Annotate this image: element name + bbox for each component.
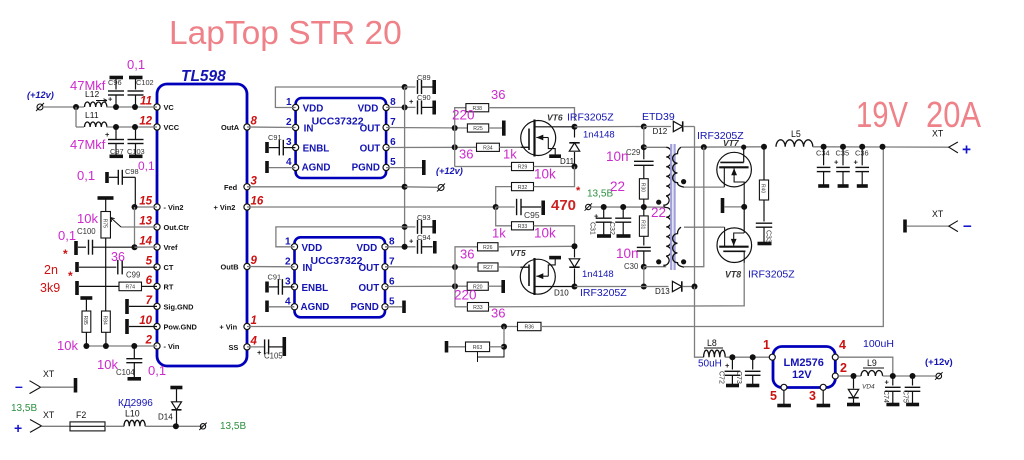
svg-text:C32: C32 [608, 222, 615, 235]
svg-text:3: 3 [286, 137, 292, 148]
capacitor C99 line [75, 262, 79, 272]
svg-text:D12: D12 [653, 127, 668, 136]
svg-text:9: 9 [251, 255, 258, 267]
capacitor C100 [74, 241, 78, 255]
resistor R30 [639, 179, 648, 199]
node R84/-Vin [103, 343, 109, 349]
svg-text:4: 4 [839, 338, 846, 352]
wire L9 to +12v out [883, 375, 936, 377]
resistor R74 line [75, 281, 79, 295]
node output feedback [880, 144, 886, 150]
svg-text:IN: IN [304, 124, 314, 135]
svg-text:VT8: VT8 [725, 270, 741, 280]
svg-text:22: 22 [610, 179, 625, 194]
resistor R84 [102, 311, 111, 332]
svg-text:+: + [725, 361, 730, 370]
resistor R36 [518, 322, 542, 330]
resistor R85 [80, 296, 92, 300]
wire cross-link down [684, 147, 704, 267]
node sources [741, 204, 747, 210]
svg-text:10n: 10n [616, 246, 639, 261]
svg-text:10k: 10k [57, 338, 78, 353]
terminal 13,5B supply [586, 204, 591, 209]
wire secondary top to VT7 drain [684, 186, 724, 188]
wire +Vin line right [541, 147, 883, 327]
node C75 [910, 373, 916, 379]
svg-text:IN: IN [303, 263, 313, 274]
wire UCC1 pin1 VDD loop [275, 87, 404, 108]
wire UCC2 OUT6 [385, 285, 467, 287]
node D10 anode [572, 243, 578, 249]
svg-text:7: 7 [389, 256, 395, 267]
svg-text:C89: C89 [417, 73, 431, 82]
svg-text:R75: R75 [101, 219, 107, 228]
node C97 bottom line [113, 124, 119, 130]
svg-text:VT5: VT5 [510, 248, 526, 258]
TL598 pin 4 SS [244, 344, 250, 350]
svg-text:TL598: TL598 [181, 68, 226, 85]
terminal (+12v) aux [438, 185, 444, 191]
svg-text:L11: L11 [85, 110, 99, 120]
svg-text:36: 36 [491, 87, 505, 102]
svg-text:*: * [68, 269, 73, 283]
svg-text:2: 2 [840, 361, 847, 375]
resistor R32 [512, 183, 534, 191]
capacitor C73 [752, 357, 754, 369]
node C103 bottom line [132, 124, 138, 130]
node C74 [890, 373, 896, 379]
svg-text:1k: 1k [503, 147, 517, 162]
node -Vin2/C98 [132, 204, 138, 210]
svg-text:+: + [409, 97, 414, 106]
wire R32 branch [496, 187, 512, 207]
svg-text:10k: 10k [77, 211, 98, 226]
node OUT6 (2) [452, 283, 458, 289]
svg-text:220: 220 [452, 108, 475, 123]
capacitor C98 [105, 172, 109, 183]
svg-text:+: + [834, 158, 839, 167]
svg-text:PGND: PGND [352, 163, 380, 174]
resistor R34 [477, 143, 500, 151]
arrow L12 polarity [96, 99, 107, 103]
svg-text:R40: R40 [760, 184, 766, 193]
ground AGND stub (top) [265, 161, 269, 173]
node VD4 [851, 373, 857, 379]
TL598 pin 16 + Vin2 [244, 204, 250, 210]
node VT5 drain [572, 284, 578, 290]
svg-text:ENBL: ENBL [303, 144, 330, 155]
svg-text:10k: 10k [534, 226, 556, 241]
svg-text:+: + [962, 142, 971, 159]
svg-text:Sig.GND: Sig.GND [164, 302, 195, 311]
LM2576 pin 2 [832, 373, 838, 379]
diode D14 [170, 386, 182, 390]
wire L10 to node [145, 425, 203, 427]
capacitor C33 [756, 222, 772, 224]
node VT7 gate [741, 145, 746, 150]
wire 13,5B to transformer [591, 206, 664, 208]
transistor VT8 IRF3205Z [717, 228, 752, 263]
svg-text:C35: C35 [836, 149, 850, 158]
svg-text:47Mkf: 47Mkf [70, 78, 106, 93]
resistor R29 [512, 162, 534, 170]
svg-text:19V: 19V [856, 94, 909, 135]
wire pin4 loop [838, 357, 893, 376]
wire UCC2 pin8 [385, 246, 416, 248]
svg-text:XT: XT [932, 129, 944, 139]
wire C98 down to -Vin2 [134, 177, 136, 207]
svg-text:(+12v): (+12v) [925, 357, 953, 368]
svg-text:IRF3205Z: IRF3205Z [748, 269, 795, 281]
node C96 top line [113, 104, 119, 110]
diode D13 [672, 281, 681, 291]
svg-text:10k: 10k [534, 167, 556, 182]
svg-text:VD4: VD4 [862, 384, 875, 391]
TL598 pin 6 RT [154, 283, 160, 289]
svg-text:+: + [409, 237, 414, 246]
inductor L8 [704, 350, 726, 357]
svg-text:OUT: OUT [360, 124, 381, 135]
capacitor C29 [643, 147, 645, 159]
svg-text:UCC37322: UCC37322 [312, 116, 364, 128]
wire drain to primary top [575, 126, 644, 128]
resistor R27 [478, 263, 498, 271]
svg-text:12: 12 [139, 116, 152, 128]
svg-text:C98: C98 [125, 167, 139, 176]
svg-text:C34: C34 [816, 149, 830, 158]
svg-text:КД2996: КД2996 [118, 398, 153, 409]
wire +19 down from node [694, 286, 696, 288]
svg-text:UCC37322: UCC37322 [311, 255, 363, 267]
svg-text:4: 4 [286, 157, 292, 168]
svg-text:R27: R27 [483, 265, 493, 271]
svg-text:OUT: OUT [360, 144, 381, 155]
TL598 pin 10 Pow.GND [154, 323, 160, 329]
node VT6 drain [572, 124, 578, 130]
node C102 top line [132, 104, 138, 110]
svg-text:3: 3 [285, 276, 291, 287]
resistor R63 [445, 341, 449, 353]
svg-text:C30: C30 [624, 262, 639, 271]
svg-text:XT: XT [43, 410, 55, 420]
svg-text:+ Vin: + Vin [219, 323, 237, 332]
resistor R75 [98, 196, 114, 200]
svg-text:C91: C91 [268, 133, 282, 142]
node Fed [402, 184, 408, 190]
svg-text:5: 5 [770, 389, 777, 403]
resistor R20 [467, 282, 488, 290]
svg-text:- Vin: - Vin [164, 342, 180, 351]
trimmer tap R63 [478, 347, 505, 362]
wire R38 to drain node [489, 108, 575, 121]
svg-text:C95: C95 [524, 210, 540, 220]
svg-text:0,1: 0,1 [127, 57, 145, 72]
svg-text:3k9: 3k9 [40, 281, 60, 295]
svg-text:14: 14 [139, 236, 152, 248]
svg-text:PGND: PGND [351, 302, 379, 313]
wire Fed to +12v terminal [405, 186, 437, 189]
node input junction [73, 104, 79, 110]
ground stub sources [721, 198, 725, 213]
svg-text:VT6: VT6 [547, 113, 563, 123]
capacitor C75 [912, 376, 914, 386]
svg-text:+: + [854, 158, 859, 167]
svg-text:IRF3205Z: IRF3205Z [580, 287, 627, 299]
svg-text:+: + [108, 95, 113, 104]
wire junction down [75, 107, 77, 127]
svg-text:XT: XT [43, 369, 55, 379]
node OUT6 [452, 144, 458, 150]
svg-text:*: * [63, 247, 68, 261]
svg-text:13: 13 [139, 216, 152, 228]
svg-text:3: 3 [809, 389, 816, 403]
svg-text:OUT: OUT [359, 263, 380, 274]
svg-text:R31: R31 [639, 220, 645, 229]
svg-text:R29: R29 [518, 165, 528, 171]
node D14 [173, 423, 179, 429]
svg-text:XT: XT [932, 209, 944, 219]
svg-text:R84: R84 [102, 316, 108, 325]
svg-text:C105: C105 [264, 352, 283, 361]
trimmer arrow R75 [121, 226, 157, 228]
svg-text:C31: C31 [589, 222, 596, 235]
svg-text:CT: CT [164, 263, 174, 272]
node R85/-Vin [83, 343, 89, 349]
diode VD4 [853, 376, 855, 389]
wire UCC1 pin8 [386, 106, 415, 108]
svg-text:Out.Ctr: Out.Ctr [164, 223, 190, 232]
svg-text:VDD: VDD [303, 104, 324, 115]
svg-text:C99: C99 [126, 271, 140, 280]
capacitor C91 (top ENBL) [265, 142, 269, 153]
svg-text:L9: L9 [867, 358, 877, 368]
secondary winding bottom [673, 227, 684, 267]
svg-text:(+12v): (+12v) [27, 90, 54, 100]
resistor R33 (gate drive) [467, 303, 488, 312]
svg-text:R33: R33 [473, 305, 483, 311]
wire R33b branch [496, 207, 512, 226]
svg-text:C90: C90 [417, 93, 431, 102]
wire L8 to pin1 [725, 356, 769, 358]
svg-text:8: 8 [389, 236, 395, 247]
svg-text:SS: SS [229, 343, 239, 352]
svg-text:LapTop STR 20: LapTop STR 20 [169, 15, 402, 52]
svg-text:C29: C29 [626, 148, 640, 157]
svg-text:13,5В: 13,5В [11, 403, 37, 414]
svg-text:1n4148: 1n4148 [582, 269, 614, 280]
svg-text:11: 11 [140, 96, 152, 108]
svg-text:470: 470 [551, 197, 576, 214]
svg-text:1: 1 [286, 97, 292, 108]
svg-text:36: 36 [491, 306, 505, 321]
svg-text:C103: C103 [127, 147, 145, 156]
wire to winding top [644, 146, 666, 148]
svg-text:2: 2 [285, 256, 291, 267]
node primary bottom rail [641, 284, 647, 290]
TL598 pin 8 OutA [244, 124, 250, 130]
svg-text:+: + [14, 420, 22, 436]
wire Vref node to pin14 [135, 246, 158, 248]
node primary bottom lead [641, 264, 647, 270]
ground PGND stub (top) [386, 167, 422, 169]
wire -Vin [86, 345, 157, 347]
TL598 pin 12 VCC [154, 124, 160, 130]
polarity dot primary top [656, 200, 661, 205]
svg-text:Vref: Vref [164, 243, 179, 252]
capacitor C30 [637, 246, 651, 248]
TL598 pin 7 Sig.GND [154, 303, 160, 309]
svg-text:R33: R33 [518, 224, 528, 230]
LM2576 pin 3 [820, 384, 826, 390]
svg-text:L5: L5 [791, 129, 801, 139]
svg-text:0,1: 0,1 [138, 159, 155, 173]
resistor R25 [467, 124, 488, 132]
diode D11 [574, 127, 576, 138]
TL598 IC body [157, 84, 247, 366]
TL598 pin 9 OutB [244, 263, 250, 269]
wire R27 to VT5 gate [498, 266, 529, 268]
capacitor C105 [247, 346, 265, 348]
svg-text:*: * [576, 185, 581, 197]
svg-text:2n: 2n [44, 263, 58, 277]
capacitor C90 [417, 100, 419, 114]
wire R33 branch [455, 306, 467, 308]
wire primary top down [643, 127, 645, 148]
wire +Vin2 pin16 [247, 206, 496, 208]
wire secondary rail [681, 146, 764, 148]
svg-text:VCC: VCC [164, 123, 180, 132]
wire UCC2 OUT7 (gate line) [385, 266, 478, 268]
wire pin15 -Vin2 [134, 206, 157, 208]
svg-text:R26: R26 [483, 245, 493, 251]
node VDD pin8 [402, 104, 408, 110]
wire R29 to D11 node [534, 166, 575, 168]
svg-text:LM2576: LM2576 [784, 357, 824, 369]
resistor R40 [763, 147, 765, 180]
LM2576 pin 4 [832, 354, 838, 360]
svg-text:C94: C94 [417, 233, 431, 242]
svg-text:L8: L8 [707, 338, 717, 348]
wire UCC1 OUT7 [386, 127, 467, 130]
ground LM pin3 [822, 390, 824, 404]
svg-text:C75: C75 [902, 390, 909, 403]
node R36/R63 [501, 324, 507, 330]
wire R38 branch [455, 108, 466, 128]
wire OutB to IN [247, 266, 295, 268]
capacitor C103 [135, 127, 137, 139]
node C93 [402, 224, 408, 230]
capacitor C91 (bottom ENBL) [265, 282, 269, 293]
svg-text:AGND: AGND [302, 163, 331, 174]
wire R26 branch [455, 247, 478, 267]
inductor L12 [85, 102, 107, 107]
svg-text:VDD: VDD [358, 104, 379, 115]
wire UCC2 pin1 VDD loop [276, 227, 405, 247]
wire input to L-filter [43, 106, 84, 108]
wire L5 to XT+ [813, 146, 949, 148]
wire R34 to VT6 gate [499, 146, 529, 148]
svg-text:R30: R30 [639, 183, 645, 192]
node C31 [601, 204, 607, 210]
wire OutA to IN [247, 126, 296, 129]
inductor L9 [861, 371, 883, 377]
svg-text:36: 36 [459, 147, 473, 162]
svg-text:1: 1 [763, 338, 770, 352]
svg-text:ETD39: ETD39 [642, 111, 675, 123]
svg-text:F2: F2 [76, 410, 86, 420]
svg-text:VDD: VDD [357, 243, 378, 254]
svg-text:1: 1 [251, 315, 257, 327]
secondary winding top [673, 147, 684, 187]
capacitor C104 [131, 343, 137, 349]
svg-text:6: 6 [146, 275, 153, 287]
wire R29 branch [455, 166, 512, 168]
node C29 top [641, 144, 647, 150]
svg-text:7: 7 [146, 295, 153, 307]
svg-text:0,1: 0,1 [77, 168, 95, 183]
svg-text:Fed: Fed [224, 183, 238, 192]
capacitor C89 [405, 86, 416, 88]
svg-text:5: 5 [146, 256, 153, 268]
wire L12 to pin11 [106, 106, 157, 108]
svg-text:4: 4 [285, 296, 291, 307]
svg-text:AGND: AGND [301, 302, 330, 313]
node OUT7 [452, 125, 458, 131]
svg-text:C96: C96 [108, 78, 122, 87]
TL598 pin 1 + Vin [244, 323, 250, 329]
svg-text:16: 16 [251, 196, 264, 208]
svg-text:36: 36 [111, 250, 125, 264]
svg-text:R63: R63 [473, 345, 483, 351]
wire Fed [247, 186, 405, 188]
node cross-link [701, 144, 707, 150]
svg-text:22: 22 [651, 205, 666, 220]
ground AGND stub (bottom) [265, 301, 269, 313]
svg-text:+: + [257, 348, 262, 357]
svg-text:8: 8 [251, 116, 258, 128]
polarity dot primary bottom [656, 259, 661, 264]
op-amp driver U2 UCC37322 (top) [296, 98, 387, 178]
wire F2 to L10 [105, 425, 124, 427]
terminal (+12v) input [37, 104, 43, 110]
svg-text:C104: C104 [116, 368, 135, 377]
transistor VT6 IRF3205Z [521, 121, 556, 156]
svg-text:C100: C100 [77, 227, 96, 236]
svg-text:0,1: 0,1 [148, 363, 166, 378]
svg-text:D10: D10 [554, 289, 569, 298]
svg-text:C72: C72 [718, 371, 725, 384]
wire D12 down to D13 [694, 127, 696, 287]
svg-text:50uH: 50uH [698, 359, 722, 370]
TL598 pin 11 VC [154, 104, 160, 110]
TL598 pin 13 Out.Ctr [154, 224, 160, 230]
svg-text:(+12v): (+12v) [436, 166, 463, 176]
svg-text:10: 10 [139, 315, 152, 327]
wire S rail to VT8 gate [489, 262, 745, 307]
wire UCC1 OUT6 [386, 146, 476, 148]
terminal 13,5B output [200, 424, 205, 429]
svg-text:36: 36 [460, 247, 474, 262]
svg-text:7: 7 [390, 117, 396, 128]
svg-text:- Vin2: - Vin2 [164, 203, 184, 212]
primary winding bottom half [664, 207, 671, 267]
svg-text:220: 220 [454, 288, 477, 303]
inductor L11 [85, 122, 107, 127]
capacitor C94 [417, 240, 419, 254]
wire -Vin2 node down to Vref [134, 207, 136, 247]
wire VT5 drain to D13 [575, 286, 669, 288]
capacitor C32 [622, 207, 624, 218]
